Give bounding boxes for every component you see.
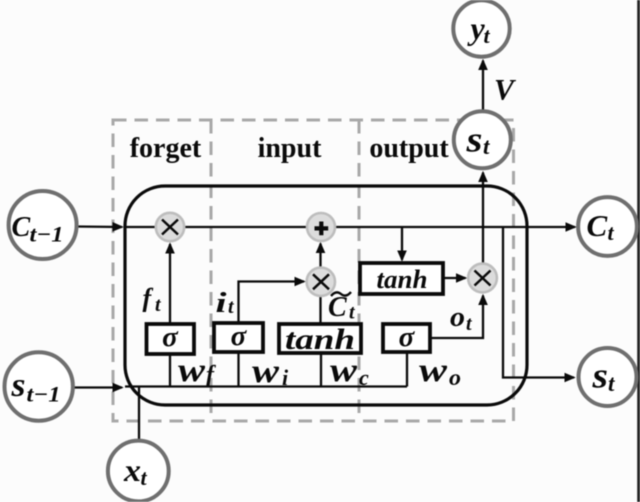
node y_t [453, 0, 509, 56]
node x_t [108, 441, 169, 502]
svg-text:t: t [483, 134, 490, 159]
svg-text:i: i [282, 365, 289, 390]
svg-text:σ: σ [399, 321, 416, 353]
svg-text:t: t [228, 296, 235, 318]
wire: s_{t-1} to cell edge [74, 386, 122, 388]
wire: C line inside cell to C_t [125, 226, 575, 228]
page right edge border [637, 0, 640, 502]
svg-text:C: C [12, 212, 31, 243]
wire: sigma output down to s line [406, 352, 408, 387]
svg-text:w: w [178, 352, 205, 389]
svg-text:f: f [143, 284, 154, 313]
node C_{t-1} [9, 191, 77, 259]
label o_t [450, 302, 473, 335]
gate box: sigma output [383, 321, 430, 353]
label f_t [143, 284, 163, 317]
svg-text:t: t [608, 371, 615, 396]
gate box: tanh output [360, 263, 443, 294]
gate box: sigma input [214, 320, 263, 352]
svg-text:input: input [258, 133, 322, 164]
svg-text:t: t [466, 313, 473, 335]
node s_{t-1} [5, 352, 73, 420]
svg-text:s: s [591, 356, 608, 396]
label w_c [330, 352, 369, 390]
operator: times input [307, 268, 335, 296]
operator: times forget [156, 213, 184, 241]
svg-text:tanh: tanh [377, 265, 428, 294]
node C_t [578, 197, 637, 256]
label i_t [216, 288, 236, 319]
svg-text:C: C [587, 208, 608, 243]
wire: x_t up to s line [138, 387, 140, 442]
wire: sigma output right and up into times output [430, 296, 483, 339]
wire: sigma input down to s line [237, 352, 239, 387]
wire: branch from C line down and right to s_t output [503, 227, 574, 378]
svg-text:V: V [494, 74, 517, 107]
svg-text:t: t [608, 220, 615, 245]
svg-text:w: w [252, 353, 279, 390]
operator: times output [468, 264, 497, 293]
svg-text:o: o [450, 302, 465, 333]
label w_i [252, 353, 289, 390]
LSTM cell rounded body [125, 186, 527, 405]
wire: f_t sigma up to times [169, 244, 171, 324]
wire: i_t sigma up and right into times [239, 282, 305, 324]
wire: times input up to plus [319, 244, 321, 269]
svg-text:t: t [141, 465, 148, 490]
svg-text:f: f [206, 362, 216, 388]
svg-text:x: x [123, 452, 141, 488]
svg-text:w: w [330, 352, 357, 389]
svg-text:output: output [369, 133, 449, 164]
gate box: tanh input [279, 323, 361, 356]
dashed section box outer frame [113, 120, 514, 421]
svg-text:o: o [449, 365, 461, 390]
svg-text:c: c [359, 365, 369, 390]
svg-text:σ: σ [231, 320, 248, 352]
svg-text:s: s [465, 120, 482, 160]
svg-text:i: i [216, 288, 227, 319]
wire: C_{t-1} to cell edge [76, 225, 122, 228]
node s_t top [454, 111, 511, 168]
svg-text:w: w [419, 352, 447, 389]
operator: plus input [307, 213, 335, 241]
label w_o [419, 352, 461, 390]
svg-text:s: s [10, 367, 25, 404]
dashed divider input/output [358, 120, 361, 421]
wire: s line inside cell [125, 385, 407, 387]
label w_f [178, 352, 216, 389]
gate box: sigma forget [147, 321, 195, 354]
dashed divider forget/input [210, 120, 213, 421]
node s_t right [579, 348, 637, 406]
wire: C line down into tanh output [401, 227, 403, 260]
wire: tanh input down to s line [320, 353, 322, 387]
wire: times output up to s_t top circle [482, 173, 484, 264]
wire: sigma forget down to s line [169, 354, 171, 387]
wire: s_t up to y_t labeled V [482, 61, 484, 113]
svg-text:t: t [484, 23, 491, 48]
svg-text:σ: σ [162, 321, 179, 353]
wire: tanh output right into times output [444, 277, 466, 279]
label C~_t tilde C sub t [328, 292, 356, 324]
svg-text:t: t [155, 294, 162, 316]
wire: tanh input up to times [319, 296, 321, 324]
svg-text:t−1: t−1 [27, 382, 61, 407]
svg-text:t: t [349, 302, 356, 324]
svg-text:forget: forget [130, 133, 202, 164]
svg-text:t−1: t−1 [30, 222, 64, 247]
